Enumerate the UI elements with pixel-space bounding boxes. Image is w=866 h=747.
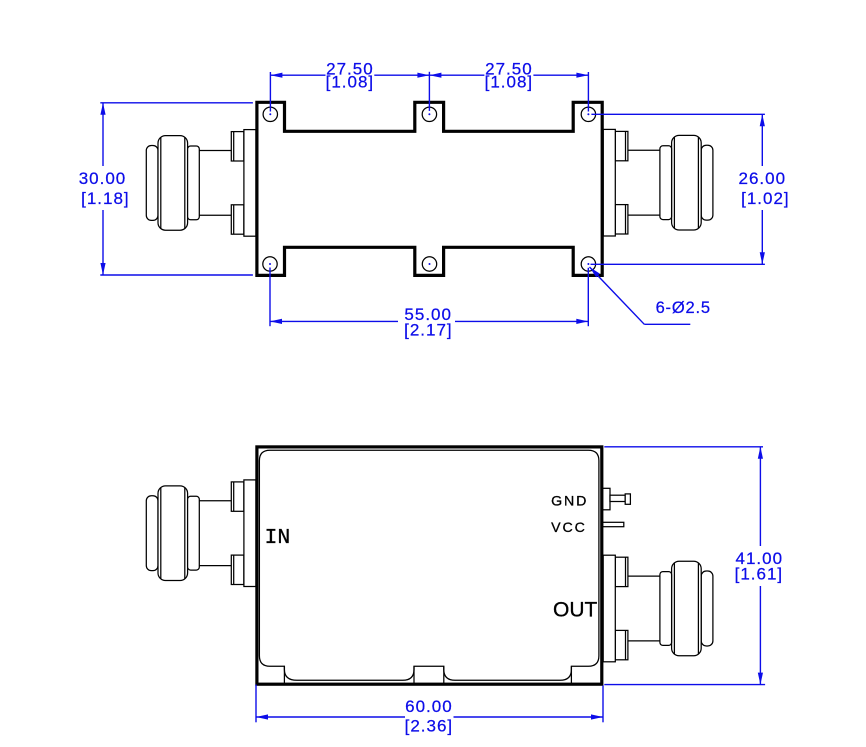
svg-text:[1.02]: [1.02] — [741, 189, 790, 208]
svg-text:GND: GND — [551, 494, 588, 510]
J2-front tab lip line top — [625, 557, 627, 586]
J2-front front cap — [701, 571, 713, 646]
J2-front flange tab top — [615, 557, 628, 586]
J2-top coupling nut — [672, 135, 702, 230]
J1-front nut knurl line right — [184, 487, 186, 579]
J1-front front cap — [146, 496, 158, 571]
svg-text:60.00: 60.00 — [405, 697, 453, 716]
J1-top body hex — [188, 146, 200, 220]
J1-front coupling nut — [158, 486, 188, 581]
mounting hole — [422, 257, 436, 271]
J1-top front cap — [146, 145, 158, 220]
J1-front flange tab bottom — [231, 555, 244, 584]
svg-text:[2.17]: [2.17] — [404, 320, 453, 339]
leader 6-O2.5: arrow + lines — [590, 267, 600, 277]
svg-text:[2.36]: [2.36] — [405, 717, 454, 736]
J2-front neck top line — [628, 575, 660, 577]
J2-top front cap — [701, 145, 713, 220]
J2-front neck bottom line — [628, 640, 660, 642]
dimension 27.50 right: extension line — [587, 72, 589, 112]
dimension 27.50 right: dim line + arrows — [429, 74, 484, 76]
J1-top nut knurl line left — [160, 137, 162, 229]
mounting hole — [263, 257, 277, 271]
svg-text:[1.08]: [1.08] — [326, 73, 375, 92]
J1-front tab lip line top — [233, 482, 235, 511]
J2-top nut knurl line left — [697, 137, 699, 229]
J2-front tab lip line bottom — [625, 630, 627, 659]
J2-front coupling nut — [672, 561, 702, 656]
J1-top flange tab bottom — [231, 205, 244, 234]
front view module body — [257, 447, 602, 684]
top view module body outline — [257, 102, 602, 275]
connector J2-front — [603, 555, 713, 662]
dimension 41.00: extension lines — [604, 446, 763, 448]
J1-top mounting plate — [244, 130, 256, 237]
J2-top flange tab bottom — [615, 205, 628, 234]
dimension 41.00: dim line + arrows — [759, 447, 761, 546]
mounting hole — [581, 107, 595, 121]
J2-front flange tab bottom — [615, 630, 628, 659]
J2-front body hex — [660, 572, 672, 646]
J1-front mounting plate — [244, 480, 256, 587]
connector J1-top — [146, 130, 256, 237]
dimension 55.00: dim line + arrows — [270, 320, 398, 322]
svg-text:IN: IN — [265, 526, 291, 550]
connector J1-front — [146, 480, 256, 587]
J2-top body hex — [660, 146, 672, 220]
dimension 30.00: dim line + arrows — [102, 103, 104, 166]
J2-top neck bottom line — [628, 214, 660, 216]
J2-top nut knurl line right — [673, 137, 675, 229]
J1-front body hex — [188, 496, 200, 570]
dimension 27.50 left: dim line + arrows — [270, 74, 325, 76]
svg-text:26.00: 26.00 — [739, 169, 787, 188]
front view inner outline with feet — [259, 450, 599, 680]
VCC pin — [603, 522, 624, 526]
J1-top flange tab top — [231, 132, 244, 161]
J2-front nut knurl line left — [697, 563, 699, 655]
J1-top tab lip line top — [233, 132, 235, 161]
dimension 60.00: dim line + arrows — [256, 716, 405, 718]
J2-top tab lip line bottom — [625, 205, 627, 234]
svg-text:30.00: 30.00 — [79, 169, 127, 188]
J1-top nut knurl line right — [184, 137, 186, 229]
J2-top mounting plate — [603, 129, 615, 236]
J1-top neck top line — [199, 150, 231, 152]
J1-front flange tab top — [231, 482, 244, 511]
dimension 60.00: extension lines — [255, 685, 257, 723]
mounting hole — [263, 107, 277, 121]
J1-front neck top line — [199, 500, 231, 502]
svg-text:[1.08]: [1.08] — [485, 73, 534, 92]
svg-text:[1.18]: [1.18] — [81, 189, 130, 208]
connector J2-top — [603, 129, 713, 236]
mounting hole — [422, 107, 436, 121]
J1-top neck bottom line — [199, 214, 231, 216]
svg-text:VCC: VCC — [551, 520, 587, 536]
dimension 27.50 left: extension lines — [269, 72, 271, 112]
dimension 26.00: dim line + arrows — [761, 114, 763, 166]
J1-top tab lip line bottom — [233, 205, 235, 234]
J2-front mounting plate — [603, 555, 615, 662]
foot edge lines — [284, 666, 571, 683]
svg-text:6-Ø2.5: 6-Ø2.5 — [656, 299, 711, 317]
J1-front tab lip line bottom — [233, 555, 235, 584]
J2-top tab lip line top — [625, 131, 627, 160]
J1-top coupling nut — [158, 136, 188, 231]
dimension 30.00: extension lines — [100, 102, 253, 104]
dimension 55.00: extension lines — [269, 268, 271, 327]
GND feed-through pin — [603, 488, 631, 510]
J2-top neck top line — [628, 149, 660, 151]
J1-front neck bottom line — [199, 565, 231, 567]
dimension 26.00: extension lines — [591, 113, 765, 115]
svg-text:OUT: OUT — [553, 599, 598, 622]
svg-text:[1.61]: [1.61] — [735, 565, 784, 584]
J2-front nut knurl line right — [673, 563, 675, 655]
J1-front nut knurl line left — [160, 487, 162, 579]
mounting hole — [581, 257, 595, 271]
J2-top flange tab top — [615, 131, 628, 160]
